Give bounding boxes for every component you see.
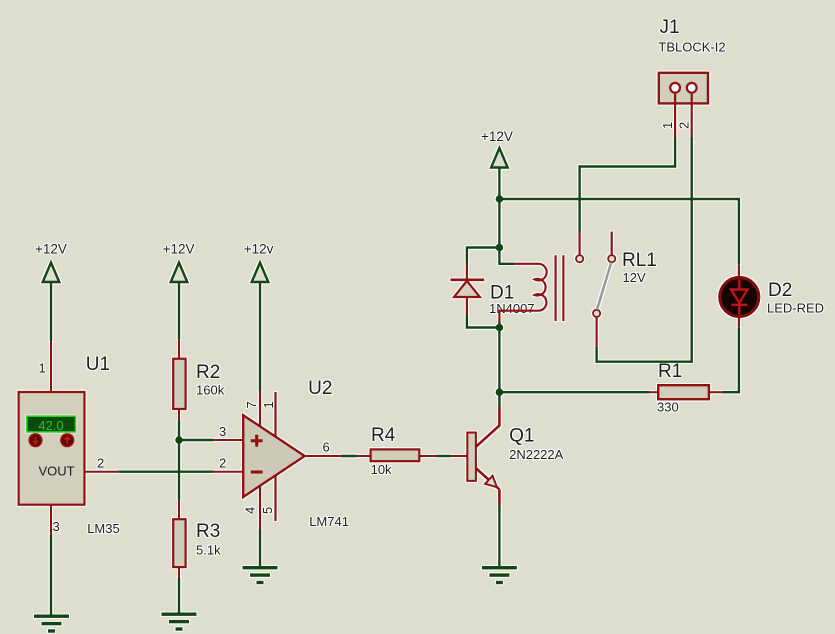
svg-text:7: 7 (244, 401, 259, 408)
label 12V (623, 270, 646, 285)
pin 3 of U1 (red stub) (51, 505, 60, 535)
svg-text:4: 4 (243, 507, 258, 514)
wire node B to D1 cathode (467, 248, 500, 264)
svg-text:R2: R2 (196, 362, 220, 383)
wire +12v arrow to op-amp pin7 (259, 282, 261, 391)
ground (under op-amp) (243, 566, 278, 584)
wire relay common to J1 pin2 (597, 137, 692, 362)
pin 2 of U2 (red stub) (213, 456, 243, 472)
svg-text:Q1: Q1 (509, 426, 534, 447)
node coil bottom junction C (496, 324, 504, 332)
svg-text:+12V: +12V (163, 242, 195, 257)
relay RL1 switch contacts (576, 232, 615, 347)
svg-text:330: 330 (657, 400, 679, 415)
wire collector to R1 (499, 391, 649, 393)
svg-text:1: 1 (660, 122, 675, 129)
svg-text:R4: R4 (371, 425, 396, 446)
node coil top junction B (496, 244, 504, 252)
ground (under U1) (34, 615, 69, 633)
svg-text:R3: R3 (196, 521, 220, 542)
base pin of Q1 (red stub) (451, 455, 467, 457)
label 160k (196, 383, 225, 398)
svg-text:5.1k: 5.1k (196, 543, 221, 558)
pin 5 of U2 (unconnected) (260, 476, 276, 521)
pin 6 of U2 output (red stub) (305, 440, 341, 457)
svg-text:42.0: 42.0 (38, 418, 63, 433)
resistor R2 160k (173, 339, 185, 420)
svg-text:5: 5 (260, 507, 275, 514)
svg-text:3: 3 (53, 519, 60, 534)
node rail junction A (496, 195, 504, 203)
label U2 (308, 378, 332, 399)
diode D1 1N4007 (450, 263, 484, 315)
pin 1 of U2 (offset null, unconnected) (261, 392, 276, 437)
svg-text:LM35: LM35 (87, 521, 120, 536)
pin 1 of J1 (red stub) (660, 93, 675, 137)
label R1 (658, 361, 682, 382)
LED D2 LED-RED (720, 264, 759, 327)
svg-text:R1: R1 (658, 361, 682, 382)
svg-text:12V: 12V (623, 270, 646, 285)
pin 4 of U2 (243, 486, 261, 529)
svg-text:6: 6 (323, 440, 330, 455)
resistor R4 10k (357, 449, 437, 461)
label U1 (86, 354, 110, 375)
label LM741 (309, 514, 349, 529)
power symbol +12V (relay rail) (481, 129, 513, 168)
resistor R1 330 (649, 385, 723, 399)
svg-text:U2: U2 (308, 378, 332, 399)
svg-text:10k: 10k (371, 462, 392, 477)
wire D1 anode to node C (467, 315, 500, 328)
label D2 (768, 280, 792, 301)
label 10k (371, 462, 392, 477)
wire node B to relay coil top (499, 248, 514, 264)
power symbol +12V (U1 supply) (35, 242, 67, 283)
power symbol +12V (R2 top) (163, 242, 195, 283)
wire node C down to collector junction (498, 328, 500, 393)
label 1N4007 (489, 301, 535, 316)
wire +12V rail to LED branch (499, 199, 739, 264)
svg-text:+12V: +12V (481, 129, 513, 144)
wire relay NO contact to J1 pin1 (580, 137, 676, 232)
pin 7 of U2 (244, 391, 260, 427)
label 330 (657, 400, 679, 415)
wire R2 bottom to divider node (178, 420, 180, 500)
svg-text:2: 2 (97, 456, 104, 471)
label LED-RED (767, 301, 824, 316)
op-amp U2 LM741 triangle (243, 415, 305, 497)
wire +12V arrow to R2 (178, 282, 180, 339)
svg-text:RL1: RL1 (622, 250, 657, 271)
wire R1 right to LED cathode (723, 328, 739, 393)
svg-text:D2: D2 (768, 280, 792, 301)
pin 1 of U1 (red stub) (39, 341, 52, 393)
label 5.1k (196, 543, 221, 558)
wire divider node to op-amp pin3 (179, 439, 213, 441)
svg-text:2N2222A: 2N2222A (509, 447, 564, 462)
ground (under Q1) (482, 566, 517, 584)
relay RL1 coil (499, 255, 564, 322)
wire U1 out to op-amp inverting input (118, 471, 213, 473)
wire op-amp pin4 to ground (259, 529, 261, 567)
label D1 (490, 283, 514, 304)
label R4 (371, 425, 396, 446)
svg-text:LED-RED: LED-RED (767, 301, 824, 316)
svg-text:TBLOCK-I2: TBLOCK-I2 (658, 39, 725, 54)
wire +12V arrow to U1 pin stem (50, 282, 52, 341)
pin 3 of U2 (red stub) (213, 424, 243, 440)
svg-text:1N4007: 1N4007 (489, 301, 535, 316)
svg-text:2: 2 (677, 122, 692, 129)
wire Q1 collector to +12V vertical (498, 392, 500, 407)
svg-text:VOUT: VOUT (38, 464, 74, 479)
wire +12V arrow to rail junction (498, 168, 500, 200)
svg-text:LM741: LM741 (309, 514, 349, 529)
node divider junction (175, 436, 183, 444)
wire R3 to ground (178, 578, 180, 613)
label LM35 (87, 521, 120, 536)
pin 2 of U1 (red stub) (85, 456, 119, 472)
label 2N2222A (509, 447, 564, 462)
svg-text:3: 3 (219, 424, 226, 439)
label Q1 (509, 426, 534, 447)
transistor Q1 2N2222A (467, 407, 499, 505)
svg-text:U1: U1 (86, 354, 110, 375)
wire coil bottom to node C (498, 322, 500, 328)
svg-text:2: 2 (219, 456, 226, 471)
relay switch arm (597, 263, 611, 310)
svg-text:+12V: +12V (35, 242, 67, 257)
ground (under R3) (162, 613, 197, 631)
svg-text:1: 1 (261, 401, 276, 408)
power symbol +12v (op-amp supply) (244, 242, 274, 283)
wire R4 to Q1 base (436, 455, 451, 457)
svg-text:160k: 160k (196, 383, 225, 398)
connector J1 TBLOCK-I2 (659, 73, 708, 104)
label R3 (196, 521, 220, 542)
svg-text:J1: J1 (660, 17, 680, 38)
label RL1 (622, 250, 657, 271)
wire op-amp output to R4 (341, 455, 357, 457)
IC U1 LM35 body (19, 392, 85, 505)
label R2 (196, 362, 220, 383)
wire rail down to coil/diode node (498, 199, 500, 248)
label TBLOCK-I2 (658, 39, 725, 54)
resistor R3 5.1k (173, 500, 185, 578)
pin 2 of J1 (red stub) (677, 93, 692, 137)
node collector junction (496, 388, 504, 396)
svg-text:+12v: +12v (244, 242, 274, 257)
svg-text:1: 1 (39, 361, 46, 376)
wire U1 pin3 to ground (50, 535, 52, 615)
label J1 (660, 17, 680, 38)
wire Q1 emitter to ground (498, 505, 500, 567)
